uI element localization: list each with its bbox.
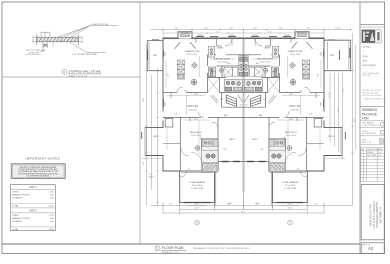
svg-text:GREAT ROOM: GREAT ROOM: [288, 50, 303, 53]
svg-text:LIVING: LIVING: [12, 215, 19, 217]
svg-text:12'-6": 12'-6": [168, 73, 170, 77]
svg-text:12'-10": 12'-10": [335, 28, 341, 30]
svg-text:24'-0": 24'-0": [255, 203, 260, 205]
svg-text:2x4: 2x4: [44, 45, 47, 47]
svg-text:11'-0 x 12'-4: 11'-0 x 12'-4: [191, 135, 201, 137]
party wall between units: [243, 38, 244, 192]
svg-text:11'-6": 11'-6": [253, 28, 258, 30]
unit 1 upper-left wing room: [147, 41, 163, 71]
svg-text:13'-8": 13'-8": [279, 28, 284, 30]
svg-text:A2: A2: [368, 246, 374, 251]
svg-text:DINING: DINING: [217, 47, 224, 49]
svg-text:IMPORTANT NOTES: IMPORTANT NOTES: [26, 156, 61, 160]
svg-text:2-CAR GARAGE: 2-CAR GARAGE: [189, 181, 206, 184]
title block: revision table header text: [361, 148, 383, 157]
svg-text:20'-0 x 20'-8: 20'-0 x 20'-8: [192, 185, 202, 187]
svg-text:5-12: 5-12: [378, 152, 381, 154]
svg-text:1,762: 1,762: [49, 192, 55, 194]
svg-text:UNIT 1: UNIT 1: [29, 186, 37, 189]
svg-text:SCALE: 1/4" = 1'-0": SCALE: 1/4" = 1'-0": [162, 251, 179, 254]
svg-text:SCALE: 1 1/2" = 1'-0": SCALE: 1 1/2" = 1'-0": [69, 74, 88, 77]
floor plan title underline: [162, 250, 187, 252]
svg-text:16'-0 x 14'-8: 16'-0 x 14'-8: [187, 54, 197, 56]
svg-text:12'-0 x 13'-6: 12'-0 x 13'-6: [217, 61, 227, 63]
title block: divider above package section: [360, 106, 385, 108]
svg-text:17'-0": 17'-0": [215, 31, 219, 33]
top dim row 2 numbers: [183, 31, 304, 33]
svg-text:11'-0 x 12'-4: 11'-0 x 12'-4: [286, 135, 296, 137]
svg-text:12'-4": 12'-4": [329, 92, 331, 97]
svg-text:PATIO: PATIO: [149, 175, 155, 178]
svg-text:10'-6": 10'-6": [289, 119, 293, 121]
svg-text:REV. PLAN: REV. PLAN: [367, 154, 376, 157]
svg-text:3040SH: 3040SH: [229, 35, 234, 37]
svg-text:6'-8": 6'-8": [175, 114, 178, 116]
svg-text:3040SH: 3040SH: [252, 35, 257, 37]
svg-text:8'-6": 8'-6": [338, 108, 340, 112]
right dimension numbers: [329, 88, 356, 123]
svg-text:20'-8": 20'-8": [288, 204, 293, 206]
svg-text:GARAGE / PORCH: GARAGE / PORCH: [12, 194, 30, 197]
svg-text:6'-8": 6'-8": [310, 114, 313, 116]
title block: approval section 2: [362, 130, 385, 135]
svg-text:DINING: DINING: [264, 47, 271, 49]
svg-text:COVERED: COVERED: [12, 221, 22, 223]
party wall dim extension: [243, 192, 245, 210]
svg-text:14'-2": 14'-2": [307, 28, 312, 30]
svg-text:9'-0": 9'-0": [143, 161, 145, 165]
svg-text:ALL DIMENSIONS: ALL DIMENSIONS: [362, 132, 377, 135]
svg-text:2 1/2" INTERIOR STUD WALL: 2 1/2" INTERIOR STUD WALL: [72, 53, 98, 56]
svg-text:and: and: [362, 58, 367, 62]
left dim small label: [149, 174, 155, 178]
svg-text:SUITE 204: SUITE 204: [362, 75, 371, 77]
svg-text:6-02: 6-02: [378, 155, 381, 157]
room labels unit 2: [245, 35, 334, 190]
unit area schedule table: [11, 185, 56, 231]
svg-text:11'-2": 11'-2": [201, 136, 203, 140]
title block: drawing package heading: [362, 108, 378, 120]
left dimension verticals: [145, 45, 158, 206]
svg-text:FOR:: FOR:: [362, 117, 370, 121]
stepped wall detail: leader to gyp board label: [58, 26, 118, 38]
svg-text:12'-0 x 13'-6: 12'-0 x 13'-6: [260, 61, 270, 63]
svg-text:1: 1: [361, 152, 362, 154]
keynote A circle left: [195, 220, 200, 225]
svg-text:5'-2": 5'-2": [188, 169, 191, 171]
title block: approval section 1: [362, 122, 385, 127]
svg-text:62'-8": 62'-8": [354, 117, 356, 122]
stepped wall detail: dimension ticks below: [43, 42, 53, 48]
bottom dimension rows: [151, 203, 353, 215]
svg-text:2,420: 2,420: [49, 229, 55, 231]
svg-text:6'-4": 6'-4": [314, 204, 318, 206]
svg-text:20'-8": 20'-8": [288, 208, 293, 210]
svg-text:21'-4": 21'-4": [183, 31, 187, 33]
floor plan title: circled number 2: [155, 246, 160, 251]
svg-text:ANYTOWN, TX: ANYTOWN, TX: [380, 206, 383, 223]
left panel horizontal divider: [2, 76, 140, 78]
keynote A circle right: [288, 220, 293, 225]
title block: sheet number box: [361, 243, 384, 254]
svg-text:IS THE PROPERTY OF: IS THE PROPERTY OF: [362, 125, 380, 127]
svg-text:6'-2": 6'-2": [343, 88, 345, 92]
svg-text:EMAIL:DWG@MAIL.COM: EMAIL:DWG@MAIL.COM: [365, 97, 386, 100]
svg-text:3040: 3040: [320, 52, 322, 56]
svg-text:BED RM #2: BED RM #2: [285, 132, 297, 134]
svg-text:DEN: DEN: [153, 55, 158, 57]
svg-text:5'-2": 5'-2": [297, 169, 300, 171]
stepped wall detail: hatch marks: [39, 37, 77, 41]
svg-text:2 LAYER GYP. BD.: 2 LAYER GYP. BD.: [91, 23, 109, 26]
svg-text:13'-4": 13'-4": [194, 94, 198, 96]
svg-text:24'-6": 24'-6": [143, 97, 145, 102]
svg-text:13'-8": 13'-8": [204, 28, 209, 30]
stepped wall detail: left label box: [25, 42, 46, 54]
svg-text:21'-4": 21'-4": [300, 31, 304, 33]
title block: top cell dividers: [360, 24, 385, 26]
svg-text:TOTAL: TOTAL: [12, 204, 19, 207]
svg-text:UNIT #2: UNIT #2: [289, 104, 300, 108]
right dimension verticals: [330, 33, 356, 206]
svg-text:COVERED: COVERED: [12, 198, 22, 200]
svg-text:13'-4": 13'-4": [289, 94, 293, 96]
svg-text:ISSUED: ISSUED: [367, 152, 374, 154]
stepped wall detail: hatched wall bar: [37, 35, 79, 45]
svg-text:BED RM #2: BED RM #2: [190, 132, 202, 134]
top dimension numbers: [175, 28, 341, 30]
svg-text:3040: 3040: [165, 52, 167, 56]
svg-text:12'-6": 12'-6": [318, 73, 320, 77]
bottom dimension numbers: [169, 204, 318, 214]
svg-text:1,762: 1,762: [49, 215, 55, 217]
title block left edge: [359, 2, 361, 254]
svg-text:5'-8": 5'-8": [220, 99, 224, 101]
unit 2 upper-right wing room: [324, 40, 351, 70]
svg-text:MASTER BDRM: MASTER BDRM: [257, 58, 273, 61]
title block: phone lines: [362, 90, 386, 100]
svg-text:ON THE AFFECTED AREAS.: ON THE AFFECTED AREAS.: [26, 175, 50, 178]
svg-text:No: No: [361, 149, 363, 151]
svg-text:4040: 4040: [320, 102, 322, 106]
title block: firm address lines: [362, 72, 380, 77]
svg-text:MOBILE: 555-987-6543: MOBILE: 555-987-6543: [362, 95, 381, 97]
svg-text:SOUND INS.: SOUND INS.: [29, 53, 41, 55]
left dimension numbers: [143, 97, 145, 165]
svg-text:PATIO: PATIO: [328, 135, 334, 138]
svg-text:6'-4": 6'-4": [169, 204, 173, 206]
svg-text:W.I.C.: W.I.C.: [227, 63, 232, 65]
detail title underline: [68, 73, 101, 75]
svg-text:16'-0 x 14'-8: 16'-0 x 14'-8: [290, 54, 300, 56]
detail title: circled number 1: [62, 70, 67, 75]
svg-text:UP: UP: [240, 105, 242, 107]
svg-text:FLOOR PLAN: FLOOR PLAN: [162, 246, 184, 250]
svg-text:UP: UP: [245, 105, 247, 107]
title block: rotated project text: [369, 201, 382, 228]
svg-text:24'-0": 24'-0": [228, 203, 233, 205]
title block: project name box: [361, 184, 384, 239]
svg-text:3040SH: 3040SH: [197, 35, 202, 37]
svg-text:5'-8": 5'-8": [263, 99, 267, 101]
svg-text:3040SH: 3040SH: [284, 35, 289, 37]
svg-text:UNIT #1: UNIT #1: [187, 104, 198, 108]
unit 2 plan geometry (mirrored): [244, 32, 346, 208]
svg-text:2: 2: [361, 155, 362, 157]
svg-text:+: +: [362, 49, 364, 53]
svg-text:14'-2": 14'-2": [175, 28, 180, 30]
svg-text:20'-8": 20'-8": [195, 208, 200, 210]
title block: divider: [360, 126, 385, 128]
svg-text:LIVING: LIVING: [12, 192, 19, 194]
svg-text:11'-6": 11'-6": [229, 28, 234, 30]
svg-text:design: design: [362, 45, 371, 49]
title block: divider: [360, 120, 385, 122]
unit 1 plan geometry: [142, 32, 244, 208]
important notes box: [11, 164, 65, 179]
svg-text:UNIT 2: UNIT 2: [29, 210, 37, 213]
title block: divider: [360, 144, 385, 146]
stepped wall detail: right label leader: [70, 42, 106, 56]
svg-text:dwg: dwg: [362, 54, 368, 58]
room labels unit 1: [153, 35, 242, 190]
svg-text:4040: 4040: [165, 102, 167, 106]
svg-text:PATIO: PATIO: [153, 135, 159, 138]
title block: stamp section: [362, 138, 384, 143]
svg-text:STEPPED WALL DETAIL: STEPPED WALL DETAIL: [69, 70, 102, 74]
svg-text:56'-0": 56'-0": [241, 211, 246, 213]
svg-text:20'-8": 20'-8": [195, 204, 200, 206]
svg-text:DEN: DEN: [330, 55, 335, 57]
title block: logo: [362, 30, 382, 43]
stepped wall detail: dimension ticks above: [33, 32, 82, 44]
top dimension line row 1: [151, 28, 353, 31]
svg-text:TOTAL: TOTAL: [12, 228, 19, 231]
title block: firm name lines: [362, 45, 376, 67]
svg-text:11'-2": 11'-2": [285, 136, 287, 140]
svg-text:10'-4": 10'-4": [184, 91, 188, 93]
svg-text:GREAT ROOM: GREAT ROOM: [185, 50, 200, 53]
svg-text:10'-4": 10'-4": [299, 91, 303, 93]
bottom strip divider: [2, 243, 360, 245]
svg-text:17'-0": 17'-0": [268, 31, 272, 33]
svg-text:MASTER BDRM: MASTER BDRM: [214, 58, 230, 61]
svg-text:1,762 S.F.: 1,762 S.F.: [290, 110, 299, 112]
svg-text:10'-6": 10'-6": [194, 119, 198, 121]
svg-text:associates: associates: [362, 63, 376, 67]
left panel divider vertical: [139, 2, 141, 244]
svg-text:GARAGE / PORCH: GARAGE / PORCH: [12, 217, 30, 220]
svg-text:MAY 12 - 06: MAY 12 - 06: [362, 141, 371, 144]
title block: revision table: [361, 148, 385, 182]
svg-text:20'-0 x 20'-8: 20'-0 x 20'-8: [285, 185, 295, 187]
top dimension line row 2: [163, 30, 324, 37]
title block: divider: [360, 135, 385, 137]
svg-text:2-CAR GARAGE: 2-CAR GARAGE: [282, 181, 299, 184]
svg-text:W.I.C.: W.I.C.: [256, 63, 261, 65]
svg-text:1,762 S.F.: 1,762 S.F.: [188, 110, 197, 112]
svg-text:2,420: 2,420: [49, 205, 55, 207]
svg-text:THE AREAS OF CONSTRUCTION TO B: THE AREAS OF CONSTRUCTION TO BE VERIFIED…: [193, 247, 250, 250]
